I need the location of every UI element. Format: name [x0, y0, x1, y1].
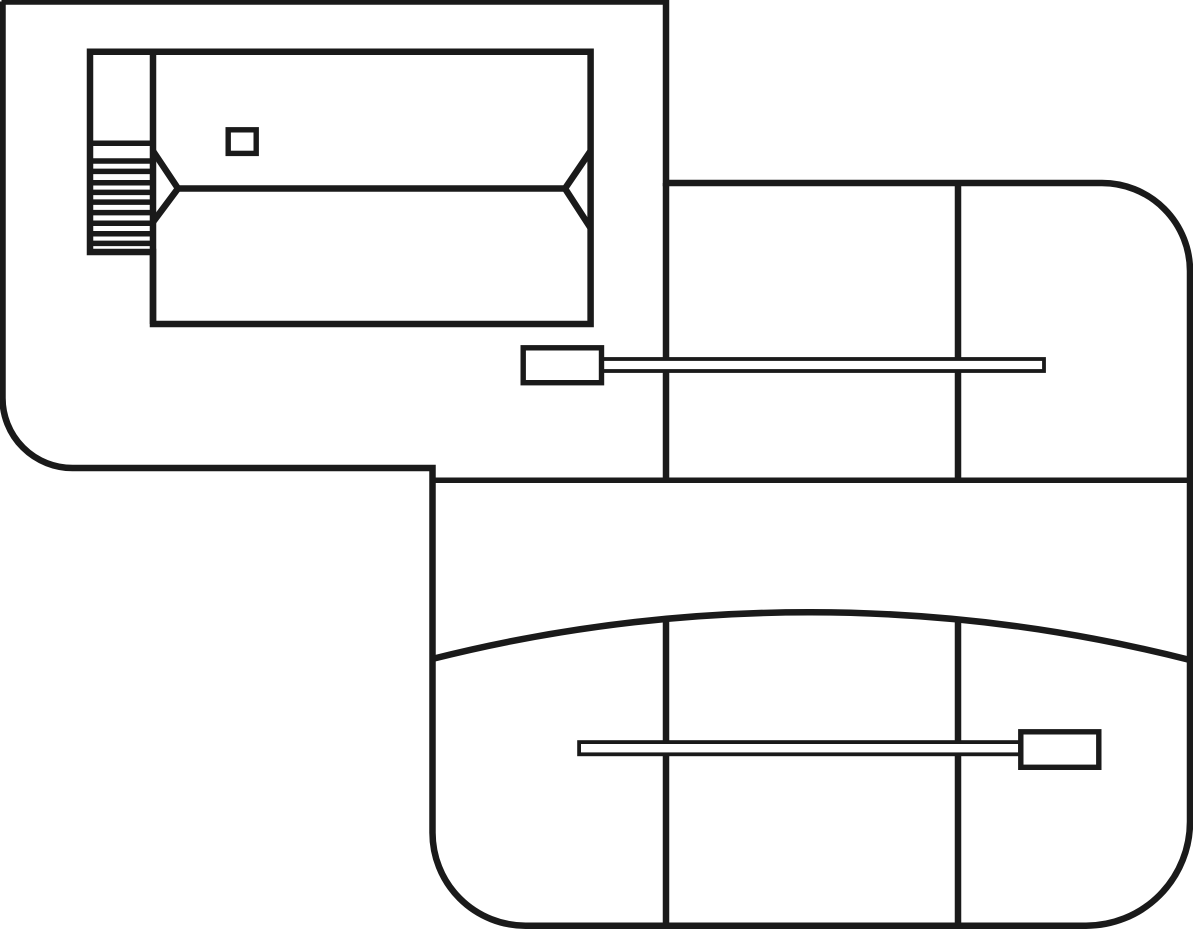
section marker 2 head (lower right box) — [1021, 732, 1099, 768]
interior vertical line x=666 (upper section) — [663, 183, 670, 480]
stairs hatch (tread lines) — [90, 143, 153, 243]
roof ridge line — [178, 185, 565, 192]
left hip lines — [153, 151, 178, 222]
interior vertical line x=666 (lower section) — [663, 619, 670, 925]
building footprint (L-shaped outline) — [90, 52, 591, 324]
right hip lines — [565, 151, 591, 228]
section marker 1 head (upper left box) — [523, 348, 601, 383]
interior vertical line x=958 (lower section) — [955, 617, 962, 925]
section marker 1 shaft (upper) — [602, 359, 1044, 371]
interior vertical line x=958 (upper section) — [955, 183, 962, 480]
chimney — [228, 130, 256, 154]
interior horizontal property line — [432, 478, 1190, 484]
curved contour line (arc across lower section) — [432, 612, 1190, 660]
section marker 2 shaft (lower) — [579, 742, 1020, 754]
building wing divider x=153 — [150, 52, 157, 324]
